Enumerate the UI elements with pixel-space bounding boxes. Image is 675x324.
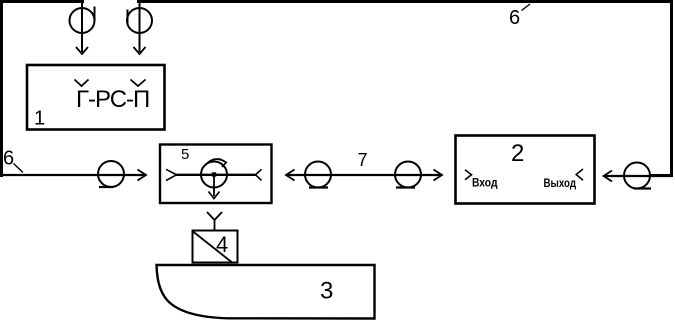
wire arrow toward block 5 (286, 170, 295, 181)
wire arrow into block 2 (434, 170, 443, 181)
wire vertical input 1 (76, 2, 88, 54)
label 6 (top leader) (509, 4, 530, 29)
wire top-right segment of cable loop (137, 2, 672, 176)
wire top-left segment of cable loop (2, 2, 85, 178)
svg-text:5: 5 (181, 146, 189, 163)
svg-text:Выход: Выход (544, 176, 577, 190)
block 1 Г-РС-П generator (27, 65, 165, 130)
circulator symbol in block 5 (201, 159, 227, 199)
svg-text:2: 2 (511, 140, 524, 167)
block 4 antenna coupler (193, 231, 238, 263)
svg-text:1: 1 (34, 108, 45, 130)
coupler symbol on input 1 (70, 7, 95, 34)
coupler symbol K3 (395, 162, 421, 188)
coupler symbol on input 2 (127, 8, 152, 33)
coupler symbol K2 (305, 162, 331, 188)
wire from left border to coupler (1, 174, 145, 176)
wire arrow into block 2 right side (604, 171, 672, 182)
svg-text:7: 7 (358, 150, 368, 170)
wire vertical input 2 (134, 2, 146, 54)
svg-text:6: 6 (509, 7, 520, 29)
block 3 ship hull (157, 265, 375, 319)
wire 7 between couplers (287, 150, 442, 175)
block 2 device under test (456, 136, 595, 204)
wire arrow into block 5 (138, 170, 147, 181)
label 6 (left leader) (3, 148, 23, 173)
svg-text:3: 3 (320, 278, 333, 305)
antenna Y symbol (207, 212, 222, 230)
svg-text:4: 4 (216, 232, 228, 257)
svg-text:Г-РС-П: Г-РС-П (76, 86, 149, 113)
svg-text:6: 6 (3, 148, 14, 170)
coupler symbol K4 (624, 163, 651, 189)
block 5 circulator unit (160, 145, 272, 204)
svg-text:Вход: Вход (472, 176, 498, 190)
coupler symbol K1 (98, 161, 124, 187)
